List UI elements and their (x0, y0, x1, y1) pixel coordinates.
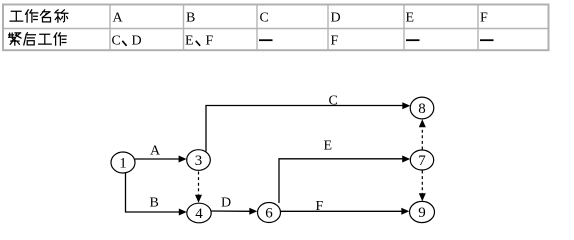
header row latin letters A-F (113, 11, 489, 26)
svg-text:B: B (186, 11, 195, 26)
glyph 作 (54, 33, 66, 45)
svg-text:3: 3 (195, 153, 203, 169)
node 7 (410, 150, 433, 170)
activity A arrow 1-3 (135, 156, 187, 163)
node 8 (410, 97, 434, 119)
svg-text:B: B (150, 196, 159, 211)
dummy arrow 3-4 dashed (195, 172, 202, 203)
svg-text:E: E (406, 11, 415, 26)
svg-text:C: C (260, 11, 269, 26)
table outer border (3, 5, 549, 51)
svg-text:E: E (185, 34, 194, 49)
svg-text:C: C (329, 94, 338, 109)
glyph 作 (26, 10, 38, 22)
dummy arrow 7-8 dashed pointing up (419, 119, 426, 149)
svg-text:9: 9 (418, 205, 426, 221)
svg-text:C: C (112, 34, 121, 49)
glyph 后 (24, 33, 36, 45)
node 1 (111, 152, 135, 173)
dummy arrow 7-9 dashed pointing down (419, 171, 426, 202)
svg-text:7: 7 (418, 153, 426, 169)
svg-text:1: 1 (119, 156, 127, 172)
activity F arrow 6-9 (281, 208, 410, 215)
svg-text:8: 8 (418, 101, 426, 117)
node 9 (410, 201, 435, 222)
second row header text: 紧后工作 (9, 33, 67, 45)
svg-text:E: E (324, 139, 333, 154)
svg-text:4: 4 (195, 206, 203, 222)
activity D arrow 4-6 (212, 208, 258, 215)
glyph 名 (41, 10, 51, 22)
glyph 工 (39, 34, 52, 44)
glyph 工 (10, 11, 23, 21)
svg-text:A: A (150, 144, 161, 159)
node 4 (187, 203, 211, 223)
glyph 紧 (9, 33, 21, 45)
header cell text: 工作名称 (10, 10, 68, 22)
table inner gridlines (4, 5, 548, 51)
second row cells (112, 34, 339, 49)
svg-text:F: F (480, 11, 488, 26)
dash in cell E (406, 39, 420, 41)
svg-text:D: D (221, 196, 231, 211)
svg-text:A: A (113, 11, 124, 26)
svg-text:F: F (331, 34, 339, 49)
svg-text:D: D (132, 34, 142, 49)
activity E wire 6 up then right to 7 (279, 156, 410, 204)
node 3 (187, 150, 211, 171)
node 6 (258, 203, 281, 223)
dash in cell C (259, 39, 273, 41)
svg-text:F: F (316, 199, 324, 214)
glyph 称 (55, 10, 68, 22)
activity B wire 1 down then right to 4 (126, 173, 187, 216)
comma 、 in cell A (122, 41, 126, 46)
svg-text:F: F (206, 34, 214, 49)
svg-text:6: 6 (265, 206, 273, 222)
dash in cell F (480, 39, 494, 41)
activity C wire 3 up then right to 8 (206, 102, 410, 151)
svg-text:D: D (331, 11, 341, 26)
comma 、 in cell B (196, 41, 200, 46)
